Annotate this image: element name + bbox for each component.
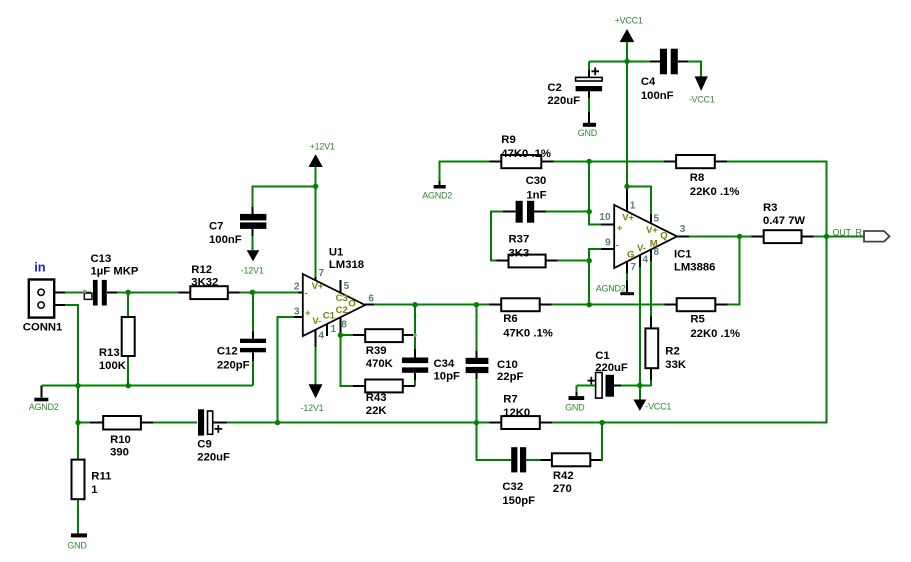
svg-text:0.47 7W: 0.47 7W [763, 215, 805, 227]
svg-text:22K: 22K [366, 405, 388, 417]
svg-text:22K0 .1%: 22K0 .1% [690, 186, 740, 198]
svg-text:47K0 .1%: 47K0 .1% [501, 148, 551, 160]
svg-text:C34: C34 [434, 358, 455, 370]
svg-text:1: 1 [630, 201, 636, 212]
svg-text:R13: R13 [99, 347, 120, 359]
svg-text:-: - [305, 288, 308, 299]
svg-text:C2: C2 [547, 82, 561, 94]
svg-text:C13: C13 [91, 253, 112, 265]
svg-text:R9: R9 [501, 134, 515, 146]
svg-text:OUT_R: OUT_R [833, 227, 863, 237]
svg-text:V-: V- [312, 316, 321, 327]
svg-text:7: 7 [631, 262, 637, 273]
svg-text:1: 1 [91, 484, 97, 496]
svg-text:5: 5 [344, 281, 350, 292]
svg-text:AGND2: AGND2 [29, 402, 59, 412]
svg-text:1: 1 [331, 324, 337, 335]
svg-text:Q: Q [660, 230, 667, 241]
svg-text:R6: R6 [503, 313, 517, 325]
svg-text:100nF: 100nF [209, 234, 242, 246]
svg-text:G: G [627, 250, 634, 261]
svg-text:+: + [305, 308, 311, 319]
svg-text:+12V1: +12V1 [310, 141, 335, 151]
svg-text:C7: C7 [209, 221, 223, 233]
svg-text:AGND2: AGND2 [422, 191, 452, 201]
svg-text:+VCC1: +VCC1 [615, 16, 643, 26]
svg-text:3K32: 3K32 [191, 277, 218, 289]
svg-text:R8: R8 [690, 172, 704, 184]
svg-text:C10: C10 [497, 359, 518, 371]
svg-text:8: 8 [341, 319, 347, 330]
svg-text:AGND2: AGND2 [596, 283, 626, 293]
svg-text:220pF: 220pF [217, 360, 250, 372]
svg-text:in: in [34, 259, 46, 274]
svg-text:GND: GND [67, 541, 87, 551]
svg-text:4: 4 [319, 331, 325, 342]
svg-text:V+: V+ [622, 213, 634, 224]
svg-text:7: 7 [319, 268, 325, 279]
svg-text:5: 5 [654, 213, 660, 224]
svg-text:-: - [616, 240, 619, 251]
svg-text:3: 3 [680, 224, 686, 235]
svg-text:C30: C30 [526, 175, 547, 187]
svg-text:LM318: LM318 [329, 259, 364, 271]
svg-text:12K0: 12K0 [503, 407, 530, 419]
svg-text:C4: C4 [641, 76, 656, 88]
svg-text:3K3: 3K3 [509, 247, 530, 259]
svg-text:9: 9 [605, 238, 611, 249]
svg-text:22K0 .1%: 22K0 .1% [690, 328, 740, 340]
svg-text:6: 6 [368, 294, 374, 305]
svg-text:R37: R37 [509, 234, 530, 246]
svg-text:R3: R3 [763, 202, 777, 214]
svg-text:220uF: 220uF [595, 362, 628, 374]
svg-text:+: + [617, 223, 623, 234]
svg-text:GND: GND [578, 128, 598, 138]
svg-text:R5: R5 [690, 314, 704, 326]
svg-text:1µF MKP: 1µF MKP [91, 266, 139, 278]
svg-text:2: 2 [294, 282, 300, 293]
svg-text:C32: C32 [502, 481, 523, 493]
svg-text:O: O [348, 298, 355, 309]
svg-text:CONN1: CONN1 [23, 321, 63, 333]
svg-text:10: 10 [599, 212, 611, 223]
svg-text:150pF: 150pF [502, 495, 535, 507]
svg-text:V-: V- [637, 243, 646, 254]
svg-text:R7: R7 [503, 394, 517, 406]
svg-text:C1: C1 [595, 350, 609, 362]
svg-text:100K: 100K [99, 360, 127, 372]
svg-text:-VCC1: -VCC1 [689, 95, 715, 105]
svg-text:C3: C3 [336, 293, 348, 304]
svg-text:R42: R42 [553, 470, 574, 482]
svg-text:C9: C9 [197, 439, 211, 451]
svg-text:GND: GND [565, 402, 585, 412]
svg-text:R10: R10 [110, 434, 131, 446]
svg-text:R43: R43 [366, 392, 387, 404]
svg-text:R11: R11 [91, 470, 111, 482]
svg-text:C2: C2 [336, 305, 348, 316]
svg-text:-VCC1: -VCC1 [645, 402, 671, 412]
svg-text:U1: U1 [329, 247, 343, 259]
svg-text:100nF: 100nF [641, 90, 674, 102]
svg-text:390: 390 [110, 447, 129, 459]
svg-text:M: M [650, 238, 658, 249]
svg-text:LM3886: LM3886 [674, 262, 715, 274]
svg-text:-12V1: -12V1 [301, 403, 324, 413]
svg-text:R2: R2 [665, 346, 679, 358]
svg-text:IC1: IC1 [674, 249, 692, 261]
svg-text:3: 3 [294, 307, 300, 318]
svg-text:V+: V+ [312, 281, 324, 292]
svg-text:C12: C12 [217, 346, 238, 358]
svg-text:C1: C1 [323, 310, 336, 321]
svg-text:4: 4 [643, 255, 649, 266]
svg-text:220uF: 220uF [197, 451, 230, 463]
svg-text:220uF: 220uF [547, 95, 580, 107]
svg-text:33K: 33K [665, 359, 687, 371]
svg-text:V+: V+ [646, 225, 658, 236]
svg-text:1nF: 1nF [526, 190, 546, 202]
svg-text:47K0 .1%: 47K0 .1% [503, 328, 553, 340]
svg-text:270: 270 [553, 483, 572, 495]
svg-text:-12V1: -12V1 [241, 266, 264, 276]
svg-text:R12: R12 [191, 264, 212, 276]
svg-text:470K: 470K [366, 358, 394, 370]
svg-text:10pF: 10pF [434, 371, 460, 383]
svg-text:R39: R39 [366, 345, 387, 357]
svg-text:22pF: 22pF [497, 371, 523, 383]
